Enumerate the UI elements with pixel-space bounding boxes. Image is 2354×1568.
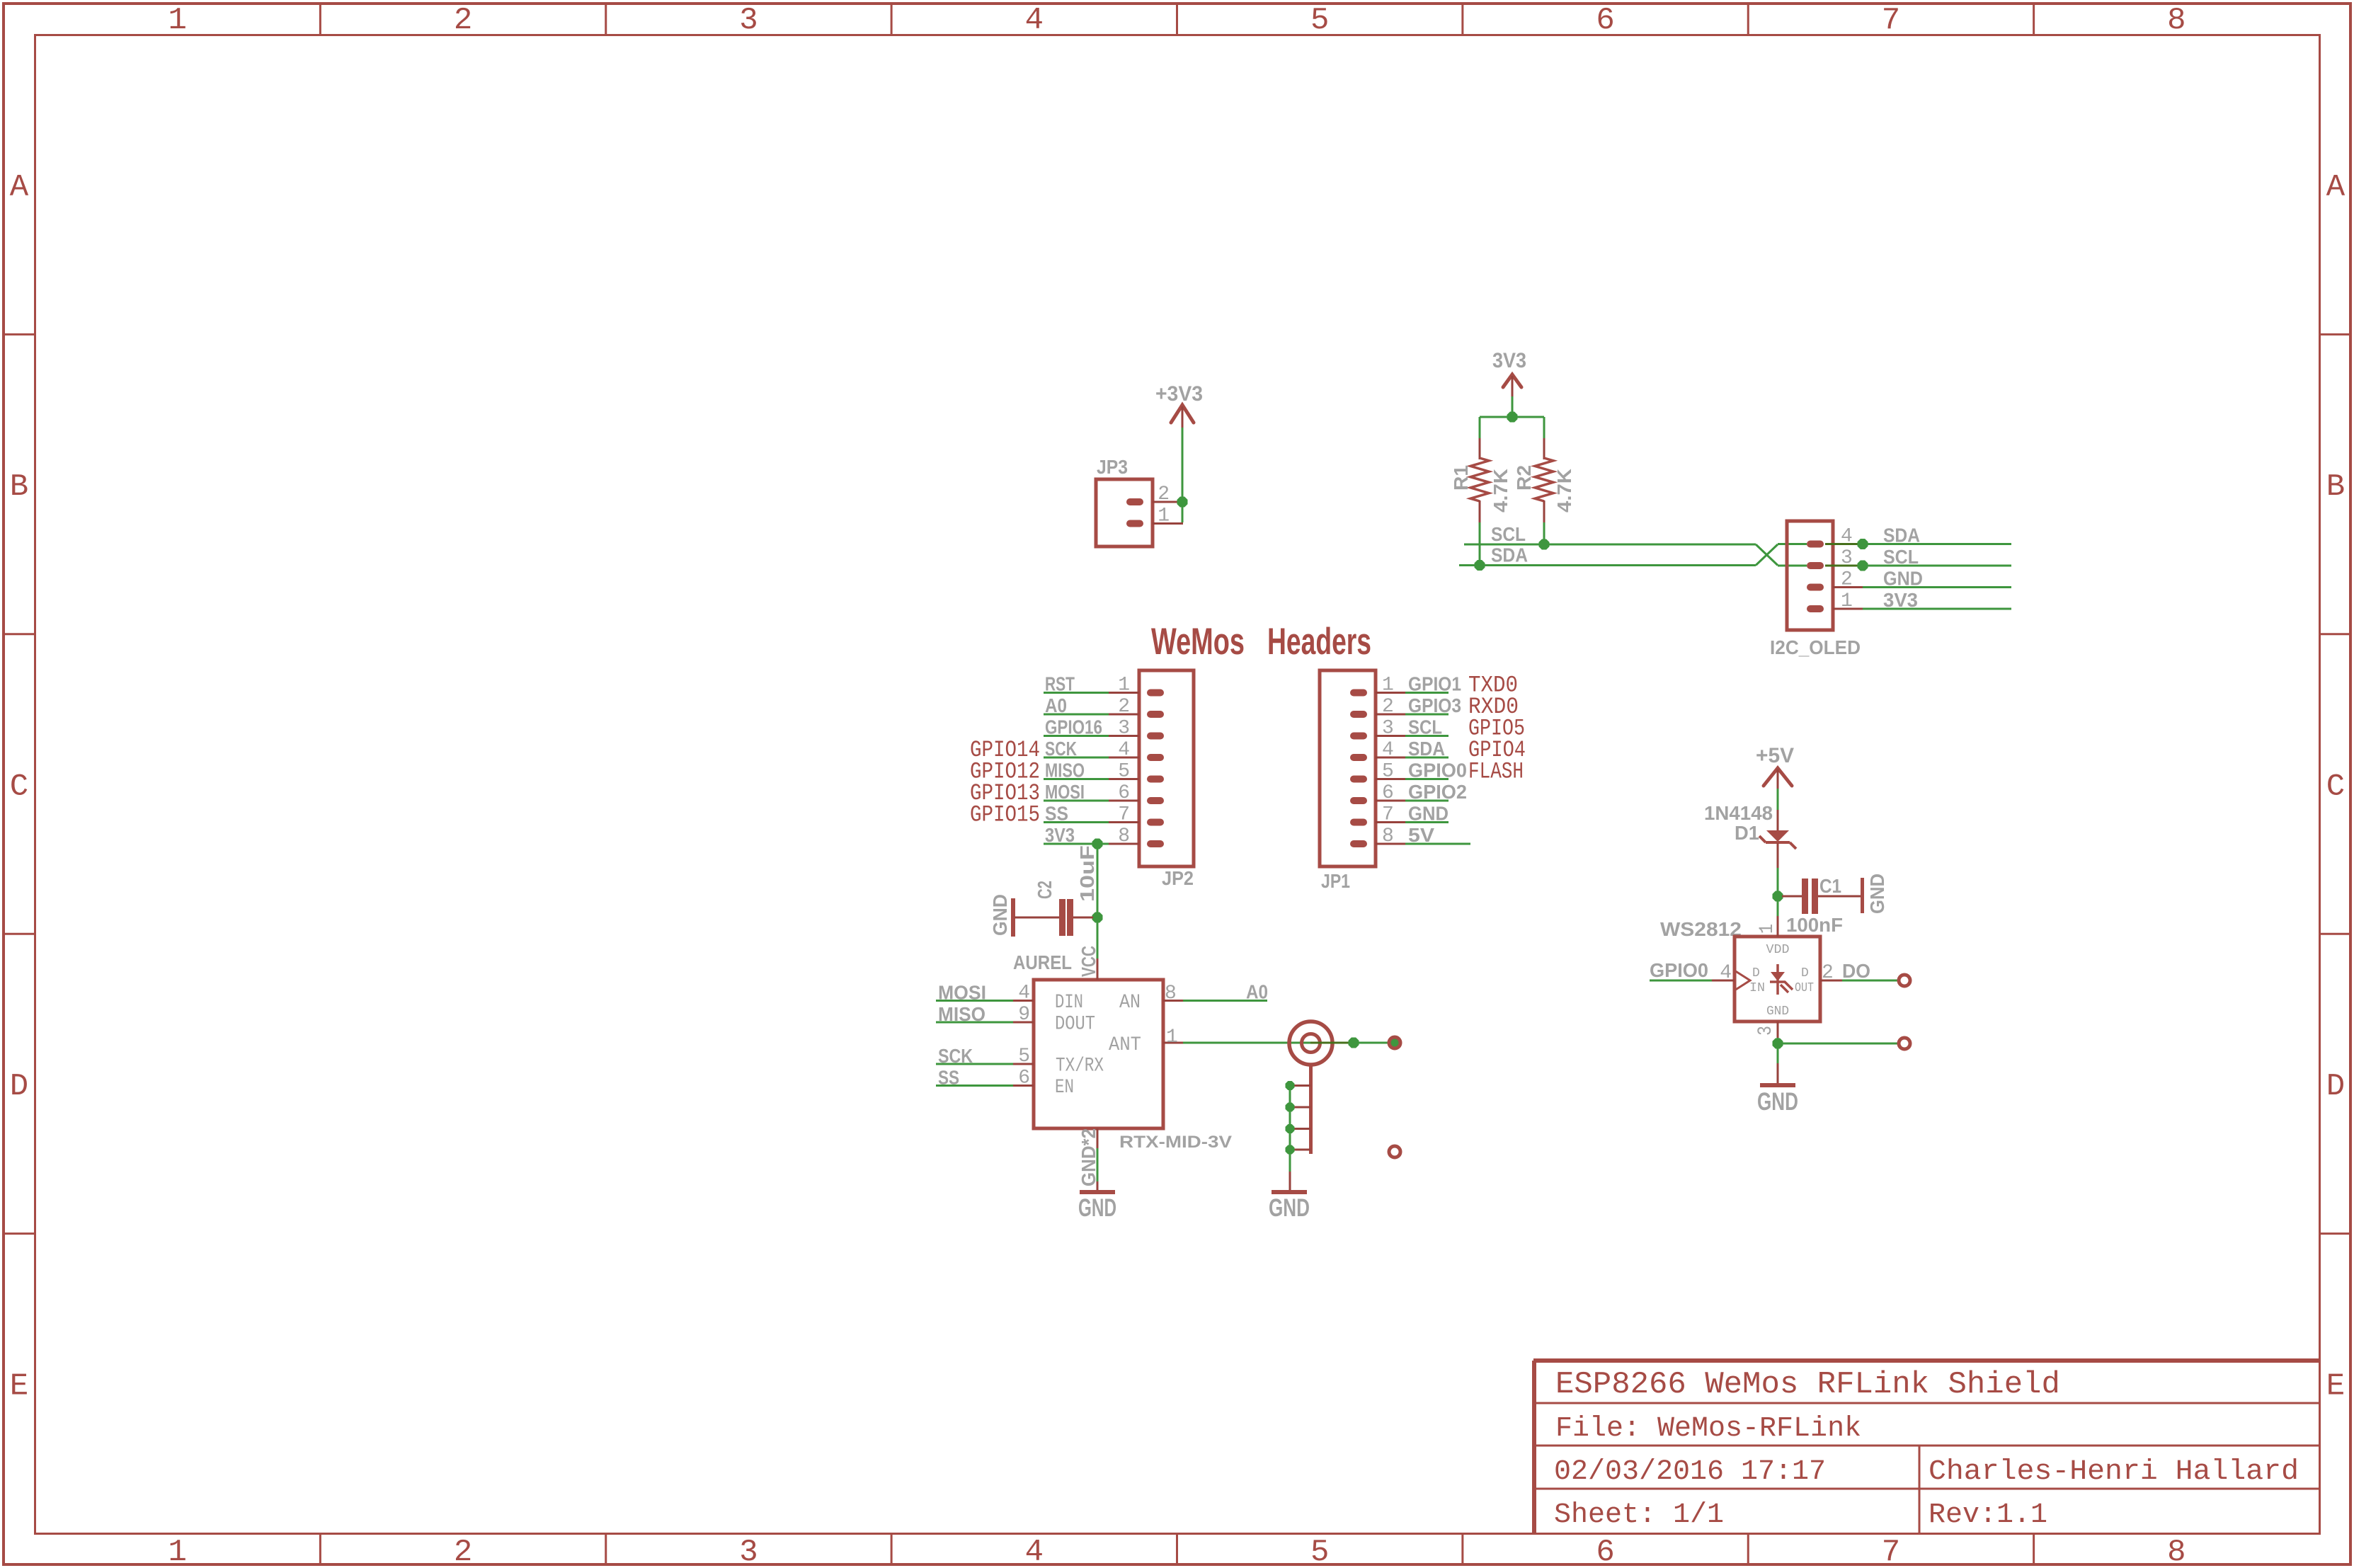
svg-text:R2: R2 (1513, 465, 1535, 491)
svg-text:Rev:1.1: Rev:1.1 (1929, 1499, 2047, 1531)
svg-text:1: 1 (1158, 505, 1170, 527)
svg-text:4: 4 (1025, 3, 1044, 38)
svg-text:D1: D1 (1735, 822, 1759, 844)
svg-text:A: A (10, 170, 29, 205)
svg-text:R1: R1 (1450, 465, 1472, 491)
svg-text:4: 4 (1382, 739, 1394, 761)
svg-text:EN: EN (1055, 1077, 1074, 1099)
svg-text:MOSI: MOSI (938, 982, 986, 1004)
svg-text:Charles-Henri Hallard: Charles-Henri Hallard (1929, 1456, 2299, 1488)
svg-text:+5V: +5V (1756, 744, 1794, 767)
svg-text:7: 7 (1382, 804, 1394, 826)
svg-text:GND: GND (1757, 1088, 1798, 1116)
svg-text:SCL: SCL (1883, 546, 1919, 568)
svg-text:C: C (2326, 769, 2345, 805)
svg-text:GND: GND (1866, 874, 1888, 914)
svg-text:DIN: DIN (1055, 992, 1083, 1014)
svg-text:AN: AN (1119, 992, 1141, 1014)
svg-text:E: E (2326, 1368, 2345, 1404)
svg-text:C: C (10, 769, 28, 805)
svg-text:C2: C2 (1034, 881, 1056, 899)
svg-text:1: 1 (1756, 924, 1778, 934)
svg-text:D: D (1801, 966, 1809, 980)
svg-text:2: 2 (454, 1535, 472, 1568)
svg-text:8: 8 (1382, 825, 1394, 847)
svg-text:MOSI: MOSI (1045, 781, 1085, 803)
svg-text:2: 2 (1822, 962, 1834, 984)
svg-text:02/03/2016 17:17: 02/03/2016 17:17 (1554, 1456, 1826, 1488)
svg-text:GPIO15: GPIO15 (970, 802, 1040, 828)
svg-text:WS2812: WS2812 (1660, 918, 1742, 940)
svg-text:3: 3 (1755, 1026, 1777, 1036)
svg-text:4.7K: 4.7K (1490, 469, 1512, 513)
svg-text:4: 4 (1841, 526, 1853, 548)
svg-text:D: D (2326, 1069, 2345, 1104)
svg-text:GND: GND (1269, 1194, 1310, 1222)
svg-text:GND*2: GND*2 (1078, 1128, 1099, 1186)
svg-text:RTX-MID-3V: RTX-MID-3V (1119, 1133, 1232, 1152)
svg-text:OUT: OUT (1795, 981, 1814, 995)
svg-text:SDA: SDA (1883, 525, 1920, 546)
svg-text:7: 7 (1118, 804, 1130, 826)
svg-text:1: 1 (168, 3, 186, 38)
svg-text:A0: A0 (1045, 694, 1067, 716)
svg-text:3: 3 (739, 1535, 758, 1568)
svg-text:6: 6 (1596, 1535, 1614, 1568)
svg-text:3V3: 3V3 (1045, 824, 1075, 846)
svg-text:SDA: SDA (1408, 738, 1445, 760)
svg-text:File: WeMos-RFLink: File: WeMos-RFLink (1555, 1413, 1861, 1445)
svg-text:GND: GND (1766, 1005, 1789, 1019)
svg-text:SDA: SDA (1491, 544, 1528, 566)
svg-text:SCL: SCL (1408, 716, 1442, 738)
svg-text:9: 9 (1018, 1004, 1030, 1026)
svg-text:5: 5 (1382, 761, 1394, 783)
svg-text:C1: C1 (1819, 875, 1841, 897)
svg-text:ANT: ANT (1109, 1034, 1141, 1056)
svg-text:1: 1 (1382, 675, 1394, 697)
svg-text:+3V3: +3V3 (1155, 382, 1203, 406)
svg-text:5: 5 (1118, 761, 1130, 783)
svg-text:DOUT: DOUT (1055, 1014, 1095, 1036)
svg-text:GND: GND (1883, 568, 1923, 590)
svg-text:I2C_OLED: I2C_OLED (1770, 636, 1861, 658)
svg-text:3V3: 3V3 (1492, 349, 1526, 372)
svg-text:2: 2 (1382, 696, 1394, 718)
svg-text:B: B (10, 469, 28, 505)
svg-text:4.7K: 4.7K (1553, 469, 1575, 513)
svg-text:1: 1 (168, 1535, 186, 1568)
svg-text:DO: DO (1842, 960, 1870, 982)
svg-text:MISO: MISO (938, 1003, 985, 1025)
svg-text:1: 1 (1841, 590, 1853, 612)
svg-text:2: 2 (1118, 696, 1130, 718)
svg-text:3V3: 3V3 (1883, 589, 1918, 611)
svg-text:SS: SS (1045, 803, 1068, 825)
svg-text:GND: GND (1078, 1194, 1116, 1222)
svg-text:GND: GND (1408, 803, 1449, 825)
svg-text:2: 2 (1158, 483, 1170, 505)
svg-text:VCC: VCC (1078, 946, 1099, 977)
svg-text:3: 3 (1382, 718, 1394, 740)
svg-text:MISO: MISO (1045, 760, 1085, 782)
svg-text:4: 4 (1118, 739, 1130, 761)
svg-text:5: 5 (1310, 3, 1329, 38)
svg-text:8: 8 (2167, 3, 2186, 38)
svg-text:3: 3 (739, 3, 758, 38)
svg-text:RST: RST (1045, 673, 1075, 695)
svg-text:8: 8 (2167, 1535, 2186, 1568)
svg-text:7: 7 (1882, 1535, 1900, 1568)
svg-text:1: 1 (1166, 1026, 1178, 1048)
svg-text:2: 2 (454, 3, 472, 38)
svg-text:B: B (2326, 469, 2345, 505)
svg-text:5: 5 (1018, 1046, 1030, 1068)
svg-text:GPIO16: GPIO16 (1045, 716, 1102, 738)
svg-text:JP2: JP2 (1162, 867, 1194, 889)
svg-text:VDD: VDD (1766, 943, 1790, 957)
svg-text:5: 5 (1310, 1535, 1329, 1568)
svg-text:GND: GND (989, 894, 1011, 936)
svg-text:FLASH: FLASH (1468, 759, 1524, 785)
svg-text:Headers: Headers (1267, 621, 1371, 663)
svg-text:E: E (10, 1368, 28, 1404)
svg-text:4: 4 (1720, 962, 1732, 984)
svg-text:GPIO2: GPIO2 (1408, 781, 1467, 803)
svg-text:100nF: 100nF (1786, 914, 1843, 936)
svg-text:6: 6 (1018, 1068, 1030, 1089)
svg-text:IN: IN (1749, 981, 1765, 995)
svg-text:1N4148: 1N4148 (1704, 802, 1773, 824)
svg-text:SS: SS (938, 1067, 959, 1089)
svg-text:2: 2 (1841, 569, 1853, 591)
svg-text:3: 3 (1841, 547, 1853, 569)
svg-text:8: 8 (1118, 825, 1130, 847)
svg-text:SCL: SCL (1491, 523, 1526, 545)
svg-text:1: 1 (1118, 675, 1130, 697)
svg-text:3: 3 (1118, 718, 1130, 740)
svg-text:GPIO0: GPIO0 (1650, 959, 1708, 981)
svg-text:JP1: JP1 (1321, 870, 1350, 892)
svg-text:4: 4 (1018, 983, 1030, 1005)
svg-text:GPIO1: GPIO1 (1408, 673, 1461, 695)
svg-text:10uF: 10uF (1076, 845, 1098, 902)
svg-text:GPIO0: GPIO0 (1408, 760, 1467, 782)
svg-text:JP3: JP3 (1097, 456, 1128, 478)
svg-text:ESP8266 WeMos RFLink Shield: ESP8266 WeMos RFLink Shield (1555, 1367, 2060, 1402)
svg-text:SCK: SCK (938, 1045, 973, 1067)
svg-text:7: 7 (1882, 3, 1900, 38)
svg-text:GPIO3: GPIO3 (1408, 694, 1461, 716)
svg-text:SCK: SCK (1045, 738, 1077, 760)
svg-text:6: 6 (1596, 3, 1614, 38)
svg-text:AUREL: AUREL (1013, 951, 1072, 973)
svg-text:8: 8 (1165, 983, 1177, 1005)
svg-text:TX/RX: TX/RX (1056, 1055, 1104, 1077)
svg-text:D: D (10, 1069, 28, 1104)
svg-text:5V: 5V (1408, 824, 1434, 846)
svg-text:Sheet: 1/1: Sheet: 1/1 (1554, 1499, 1724, 1531)
svg-text:4: 4 (1025, 1535, 1044, 1568)
svg-text:6: 6 (1118, 782, 1130, 804)
svg-text:6: 6 (1382, 782, 1394, 804)
svg-text:D: D (1752, 966, 1760, 980)
svg-text:A0: A0 (1246, 981, 1268, 1003)
svg-text:A: A (2326, 170, 2346, 205)
svg-text:WeMos: WeMos (1151, 621, 1245, 663)
